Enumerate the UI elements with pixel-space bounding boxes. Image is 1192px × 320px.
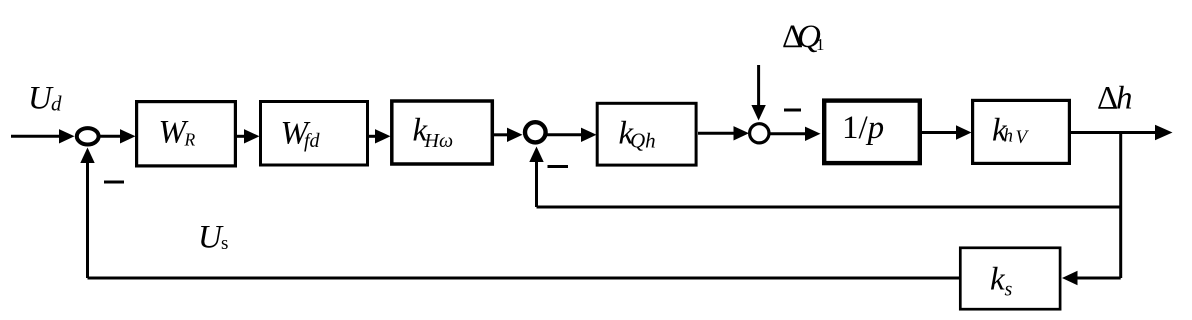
svg-text:R: R: [184, 130, 196, 150]
svg-text:fd: fd: [304, 130, 321, 152]
svg-text:s: s: [221, 233, 228, 254]
svg-text:h: h: [1004, 126, 1014, 147]
svg-text:h: h: [1116, 81, 1133, 117]
svg-text:d: d: [51, 92, 62, 116]
svg-text:1/p: 1/p: [842, 110, 884, 146]
svg-text:Hω: Hω: [424, 130, 454, 152]
svg-text:Qh: Qh: [630, 129, 656, 153]
svg-text:s: s: [1005, 279, 1013, 301]
svg-text:1: 1: [816, 35, 825, 54]
